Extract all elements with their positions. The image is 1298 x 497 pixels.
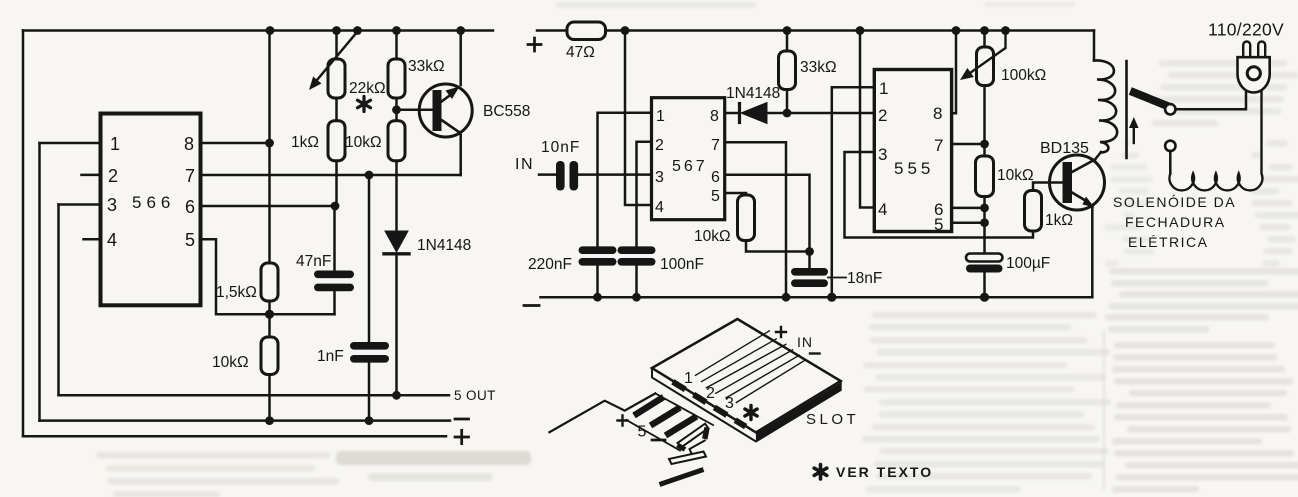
svg-text:10kΩ: 10kΩ: [997, 167, 1034, 184]
wire 10k bottom through pins to cap: [983, 197, 986, 254]
svg-text:IN: IN: [515, 156, 534, 173]
svg-text:1: 1: [110, 134, 120, 154]
wire 10k bottom to minus line: [268, 375, 271, 421]
wire pin 7 lead to transistor emitter: [201, 174, 461, 177]
potentiometer 22kΩ wiper arrow: [317, 32, 358, 81]
wire 10k bottom to diode: [395, 161, 398, 231]
wire 567 pin1 to 220nF: [598, 113, 652, 247]
node diode 5out junction: [392, 391, 401, 400]
svg-text:7: 7: [711, 137, 720, 154]
connector tail black bar: [660, 470, 704, 485]
node pin7 junction: [980, 140, 989, 149]
wire cap to ground: [983, 273, 986, 298]
resistor 1,5kΩ: [261, 263, 278, 301]
node rail pin8: [952, 26, 961, 35]
wire rail to 555 pin4: [860, 31, 874, 208]
connector trace 4 left stub: [678, 445, 686, 450]
svg-text:VER TEXTO: VER TEXTO: [836, 464, 933, 480]
resistor 1kΩ base: [1025, 191, 1042, 232]
track line 6: [736, 361, 804, 403]
svg-text:566: 566: [132, 193, 175, 212]
svg-text:6: 6: [711, 169, 720, 186]
wire collector up to coil: [1095, 152, 1101, 160]
solenoid core bar: [1125, 61, 1128, 158]
connector ribbon stripe 2: [651, 408, 681, 426]
resistor 47Ω: [567, 22, 606, 40]
svg-text:47Ω: 47Ω: [566, 44, 595, 61]
svg-text:SLOT: SLOT: [806, 411, 859, 428]
wire diode to 555 pin2: [767, 112, 874, 115]
wire 1nF bottom to minus line: [368, 363, 371, 421]
op-amp U1 566 IC box: [101, 114, 201, 306]
wire bottom contact to heater spring: [1169, 151, 1172, 173]
switch contact circle bottom: [1165, 141, 1175, 151]
wire 10k bottom to node: [746, 241, 810, 252]
wire collector to rail: [459, 31, 462, 86]
svg-text:1kΩ: 1kΩ: [1045, 212, 1073, 229]
wire base node to transistor: [397, 109, 434, 112]
svg-text:7: 7: [934, 136, 943, 155]
svg-text:6: 6: [185, 197, 195, 217]
svg-text:1,5kΩ: 1,5kΩ: [216, 284, 257, 301]
svg-text:IN: IN: [797, 334, 813, 350]
svg-text:100kΩ: 100kΩ: [1001, 67, 1046, 84]
wire pin 6 lead: [201, 205, 336, 208]
svg-text:5 OUT: 5 OUT: [454, 388, 496, 403]
track line 1: [696, 331, 770, 376]
svg-text:18nF: 18nF: [847, 270, 882, 287]
wire 567 pin5 to 10k: [725, 193, 746, 195]
wire pin 4 stub: [84, 238, 101, 241]
wire 1k top to base: [1033, 183, 1063, 191]
heater resistive element scallops: [1169, 92, 1262, 190]
wire node to 47nF bottom: [270, 313, 335, 316]
svg-text:110/220V: 110/220V: [1208, 20, 1284, 40]
diode 1N4148 left: [385, 231, 408, 252]
connector band outline: [627, 393, 714, 450]
svg-text:5: 5: [934, 215, 943, 234]
transistor Q1 BC558: [419, 84, 472, 137]
capacitor 220nF: [579, 246, 617, 265]
svg-text:4: 4: [655, 199, 664, 216]
card dark side face: [756, 383, 841, 442]
wire emitter to pin7 line: [459, 135, 462, 175]
wire 555 pin5 lead: [952, 221, 985, 224]
wire IN lead: [539, 173, 556, 176]
plug prong left: [1243, 42, 1250, 58]
svg-text:555: 555: [894, 159, 934, 178]
asterisk near 22k: [358, 97, 371, 112]
wire 555 pin1 to ground: [832, 87, 875, 297]
potentiometer 22kΩ body: [335, 31, 338, 60]
card contact dashes on front edge: [673, 382, 746, 427]
connector lead wire: [549, 393, 655, 432]
track line 5: [726, 355, 799, 398]
wire left outer vertical to plus line: [22, 31, 25, 437]
labels on card: [684, 327, 859, 428]
node base junction: [392, 105, 401, 114]
svg-text:8: 8: [710, 108, 719, 125]
svg-text:3: 3: [655, 169, 664, 186]
resistor 33kΩ middle: [786, 31, 789, 52]
svg-text:1: 1: [684, 370, 693, 387]
svg-text:1: 1: [879, 79, 888, 98]
wire 100nF to minus rail: [635, 266, 638, 298]
resistor 33kΩ left: [395, 31, 398, 60]
svg-text:220nF: 220nF: [528, 256, 572, 273]
svg-text:100nF: 100nF: [660, 256, 704, 273]
svg-text:5: 5: [638, 424, 647, 441]
svg-text:BC558: BC558: [483, 103, 530, 120]
node 1.5k 10k 47n junction: [265, 310, 274, 319]
svg-text:1N4148: 1N4148: [726, 85, 780, 102]
wire rail corner down to coil: [1093, 31, 1096, 61]
potentiometer 100kΩ: [983, 31, 986, 48]
wire top contact to plug: [1176, 92, 1247, 109]
asterisk on card: [745, 406, 757, 420]
svg-text:5: 5: [711, 188, 720, 205]
wire plus feed: [537, 29, 567, 32]
svg-text:FECHADURA: FECHADURA: [1125, 214, 1226, 230]
wire minus rail middle: [541, 296, 1093, 299]
labels on connector: [618, 416, 666, 441]
wire minus line: [40, 419, 451, 422]
capacitor 10nF input: [556, 161, 578, 191]
wire 1.5k bottom to node: [268, 301, 271, 337]
connector ribbon stripe 1: [634, 397, 664, 416]
svg-text:1: 1: [656, 108, 665, 125]
label plus left: [455, 430, 469, 443]
wire emitter down to ground rail corner: [1091, 208, 1094, 297]
node rail dots left: [266, 26, 275, 35]
wire 10nF to pin3: [578, 173, 652, 176]
capacitor 1nF: [350, 342, 389, 363]
wire 555 pin6 lead: [952, 207, 985, 210]
label minus left: [455, 418, 469, 421]
node 100n minus junction: [632, 293, 641, 302]
wire 1nF top to pin7 node: [368, 175, 371, 342]
wire pot bottom to pin7 node: [983, 86, 986, 157]
node diode 33k junction: [783, 109, 792, 118]
node pin1 gnd junction: [827, 293, 836, 302]
svg-text:100µF: 100µF: [1006, 255, 1050, 272]
svg-text:4: 4: [878, 200, 887, 219]
capacitor 18nF: [791, 268, 828, 287]
op-amp U2 567 IC box: [652, 98, 725, 220]
svg-text:567: 567: [672, 158, 708, 175]
svg-text:ELÉTRICA: ELÉTRICA: [1128, 234, 1208, 250]
svg-text:8: 8: [184, 134, 194, 154]
connector trace 4 hook: [705, 428, 707, 440]
wire 567 pin2 to 100nF: [637, 142, 652, 247]
asterisk ver texto: [814, 465, 827, 480]
wire 567 pin6 loop: [725, 175, 810, 252]
svg-text:5: 5: [185, 230, 195, 250]
resistor 10kΩ upper: [388, 121, 405, 161]
resistor 1kΩ: [328, 121, 345, 161]
mains plug body: [1238, 57, 1270, 92]
resistor 10kΩ 567: [738, 195, 755, 241]
wire 555 pin8 to rail: [952, 31, 956, 114]
track line 2: [702, 339, 777, 382]
svg-text:22kΩ: 22kΩ: [349, 80, 386, 97]
wire vcc down to 567 pin4: [625, 31, 652, 206]
svg-text:2: 2: [108, 166, 118, 186]
node pin8 junction: [265, 139, 274, 148]
wire supply to 1.5k column: [268, 31, 271, 264]
svg-text:33kΩ: 33kΩ: [800, 59, 837, 76]
wire 555 pin3 loop to 1k: [845, 152, 1034, 238]
node pin6 10k 18n junction: [805, 247, 814, 256]
connector tail open bar: [669, 452, 706, 465]
svg-text:10kΩ: 10kΩ: [212, 354, 249, 371]
switch contact circle top: [1165, 104, 1175, 114]
wire 220nF to minus rail: [596, 266, 599, 298]
wire plus line: [23, 435, 446, 438]
transistor Q2 BD135: [1050, 155, 1105, 210]
svg-text:10kΩ: 10kΩ: [694, 228, 731, 245]
svg-text:10kΩ: 10kΩ: [345, 134, 382, 151]
svg-text:SOLENÓIDE DA: SOLENÓIDE DA: [1113, 194, 1236, 210]
svg-text:47nF: 47nF: [296, 253, 331, 270]
wire 555 pin7 lead: [952, 143, 985, 146]
wire top supply rail left section: [23, 29, 493, 32]
resistor 10kΩ left bottom: [261, 337, 278, 375]
svg-text:2: 2: [878, 106, 887, 125]
card top face: [652, 319, 841, 432]
node pin7 gnd junction: [782, 293, 791, 302]
node rail pin4: [856, 26, 865, 35]
resistor 10kΩ 555: [976, 156, 994, 197]
svg-text:3: 3: [878, 145, 887, 164]
capacitor 100µF electrolytic: [966, 254, 1003, 262]
capacitor 47nF: [314, 271, 354, 292]
svg-text:1N4148: 1N4148: [417, 237, 471, 254]
wire 18nF label pointer: [828, 277, 846, 279]
svg-text:1kΩ: 1kΩ: [291, 134, 319, 151]
wire 1k bottom to pin6 node: [335, 161, 337, 206]
connector ribbon trace 4 open: [678, 424, 709, 448]
svg-text:BD135: BD135: [1040, 140, 1089, 157]
wire 47nF bottom to node line: [333, 291, 336, 314]
svg-text:3: 3: [107, 195, 117, 215]
capacitor 100nF: [618, 246, 656, 265]
wire pin1 566 to minus line vertical: [38, 143, 41, 421]
svg-text:33kΩ: 33kΩ: [408, 58, 445, 75]
wire 47nF top to pin6 node: [333, 206, 336, 271]
svg-text:8: 8: [933, 104, 942, 123]
wire 5 OUT line: [59, 394, 450, 397]
wire pin 5 lead down and right: [201, 239, 270, 314]
svg-text:2: 2: [655, 137, 664, 154]
plug prong right: [1258, 42, 1265, 58]
node 1nF minus junction: [365, 416, 374, 425]
node 220n minus junction: [593, 293, 602, 302]
svg-text:2: 2: [706, 385, 715, 402]
connector tail link: [690, 441, 705, 456]
card thickness edges: [652, 368, 841, 442]
connector ribbon stripe 3: [666, 417, 697, 436]
switch armature bar: [1134, 93, 1165, 106]
svg-text:1nF: 1nF: [317, 348, 344, 365]
label minus middle: [524, 304, 539, 307]
wire pin 2 stub: [82, 174, 101, 177]
wire pin 3 lead: [59, 203, 101, 206]
wire 33k bottom to base node: [395, 98, 398, 121]
node rail 33k: [783, 26, 792, 35]
wire 567 pin7 to ground: [725, 142, 786, 297]
node pin7 1nF junction: [365, 171, 374, 180]
timer U3 555 IC box: [874, 70, 951, 232]
svg-text:3: 3: [725, 395, 734, 412]
wire pin 8 lead: [201, 142, 270, 145]
label plus middle: [528, 38, 541, 51]
wire pin3 566 to 5-out line vertical: [57, 205, 60, 396]
diode 1N4148 middle: [725, 112, 739, 115]
wire top rail middle-right: [606, 29, 1095, 32]
wire pin 1 lead: [40, 142, 101, 145]
svg-text:10nF: 10nF: [541, 139, 580, 156]
node 47ohm junction: [621, 26, 630, 35]
node pin6 junction: [331, 202, 340, 211]
arrow actuator: [1133, 126, 1135, 143]
inductor solenoid coil: [1094, 60, 1117, 152]
track line 3: [706, 344, 785, 388]
svg-text:7: 7: [185, 166, 195, 186]
track line 4: [716, 350, 793, 394]
wire pot to 1k: [335, 98, 338, 121]
wire node to 18nF: [808, 252, 811, 269]
svg-text:4: 4: [107, 230, 117, 250]
node 10k minus junction: [265, 416, 274, 425]
wire diode to 5 OUT line: [395, 254, 398, 395]
